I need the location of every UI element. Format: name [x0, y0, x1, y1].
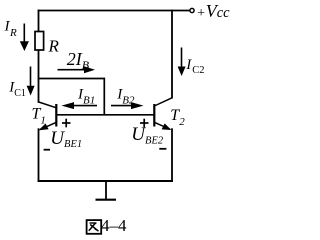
wire 2IB vertical drop	[103, 78, 105, 115]
label UBE1 minus	[44, 149, 50, 151]
arrow IB2	[111, 102, 144, 109]
arrow 2IB	[58, 66, 96, 73]
svg-text:IC1: IC1	[8, 79, 26, 99]
wire top rail	[38, 10, 190, 12]
wire right rail	[171, 10, 173, 99]
svg-text:IR: IR	[4, 19, 18, 40]
wire T1 emitter down	[38, 128, 40, 182]
transistor T2	[154, 98, 172, 130]
svg-text:R: R	[48, 36, 60, 55]
arrow IC1	[27, 67, 35, 96]
wire 2IB horizontal	[38, 78, 105, 80]
arrow IR	[20, 24, 29, 52]
wire base rail	[56, 114, 155, 116]
label UBE2 plus	[140, 119, 149, 128]
svg-text:T2: T2	[170, 107, 185, 128]
svg-text:IB1: IB1	[77, 87, 95, 107]
svg-text:UBE1: UBE1	[50, 128, 82, 150]
wire below resistor	[38, 50, 40, 103]
wire left rail upper	[38, 10, 40, 32]
wire bottom rail	[38, 180, 173, 182]
label UBE2 minus	[159, 148, 166, 150]
wire T2 emitter down	[171, 128, 173, 182]
svg-text:T1: T1	[32, 105, 46, 126]
arrow IC2	[178, 48, 186, 77]
resistor R	[35, 32, 44, 51]
ground	[96, 181, 117, 200]
transistor T1	[38, 102, 56, 130]
svg-text:4–4: 4–4	[101, 216, 127, 235]
svg-text:UBE2: UBE2	[131, 124, 164, 146]
label UBE1 plus	[62, 119, 71, 128]
arrow IB1	[62, 102, 98, 109]
svg-text:+Vcc: +Vcc	[196, 1, 230, 21]
caption glyph tu (figure)	[87, 220, 102, 234]
node Vcc terminal	[190, 8, 194, 12]
svg-text:IC2: IC2	[185, 57, 204, 76]
